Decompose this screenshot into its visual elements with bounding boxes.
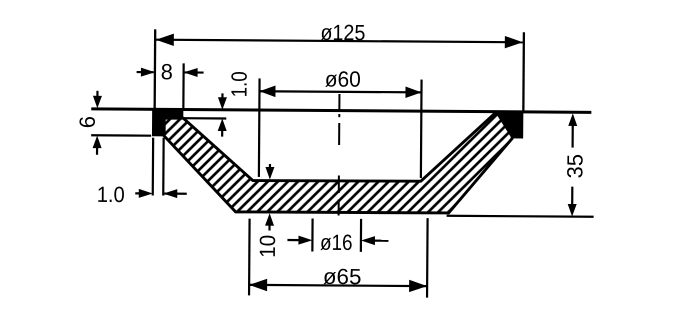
svg-text:ø125: ø125: [320, 20, 365, 45]
dimension 6 (left, abrasive height): [75, 91, 152, 156]
bottom face extension line right: [447, 216, 594, 217]
dimension 1.0 (top, abrasive depth): [183, 71, 252, 137]
abrasive layer left (black L-section): [152, 108, 183, 136]
svg-text:1.0: 1.0: [227, 71, 252, 97]
dimension ø65: [249, 217, 428, 298]
centre line: [338, 94, 341, 215]
svg-text:6: 6: [75, 116, 100, 128]
dimension ø125: [155, 19, 524, 112]
dimension ø60: [259, 66, 422, 178]
dimension 1.0 (bottom left, wall thickness): [97, 137, 187, 207]
svg-text:35: 35: [562, 154, 587, 179]
dimension 8: [136, 59, 203, 109]
dimension 35 (right, overall height): [562, 113, 588, 216]
svg-text:8: 8: [161, 59, 173, 84]
dimension 10 (flange thickness): [255, 164, 281, 258]
svg-text:1.0: 1.0: [97, 182, 125, 207]
svg-text:10: 10: [255, 235, 280, 258]
wheel body section (hatched steel core): [164, 110, 513, 214]
svg-text:ø65: ø65: [323, 264, 362, 289]
dimension ø16 (bore): [287, 218, 388, 255]
top face line: [91, 109, 591, 112]
svg-text:ø16: ø16: [320, 230, 353, 255]
abrasive layer right (black L-section): [494, 111, 523, 139]
svg-text:ø60: ø60: [325, 66, 361, 91]
